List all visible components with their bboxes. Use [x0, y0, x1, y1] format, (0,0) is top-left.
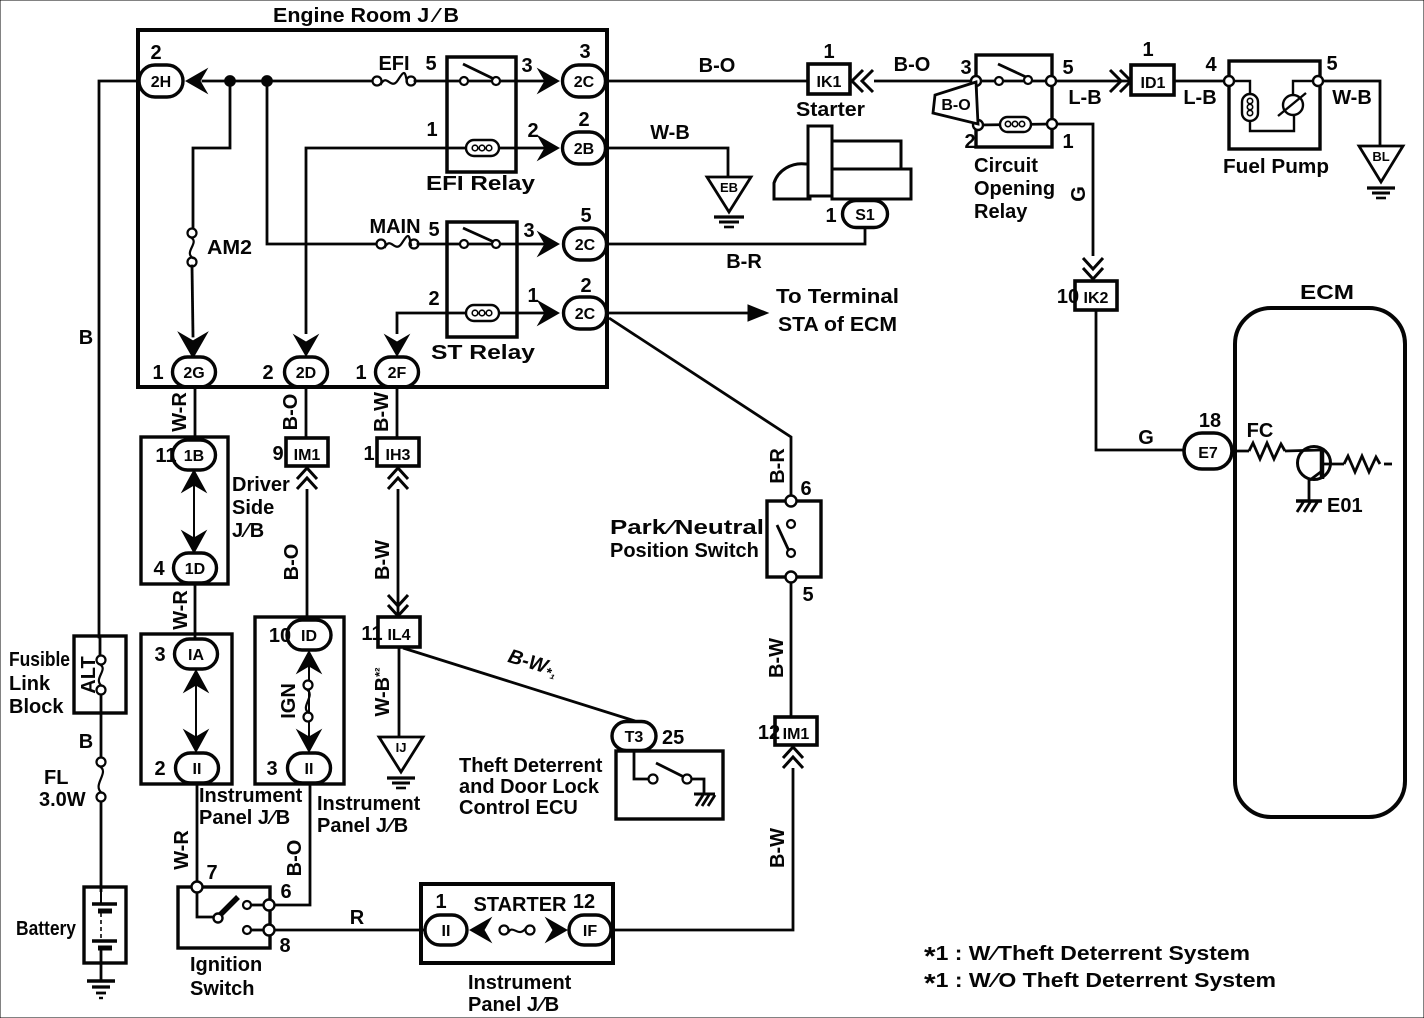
chevrons into IM1-9	[297, 468, 317, 489]
svg-text:2G: 2G	[183, 365, 204, 382]
svg-text:W-B: W-B	[650, 122, 690, 144]
svg-text:IA: IA	[188, 647, 204, 664]
svg-text:2: 2	[580, 275, 591, 297]
svg-text:Battery: Battery	[16, 918, 77, 940]
svg-text:1B: 1B	[184, 448, 204, 465]
ground E01	[1296, 495, 1363, 517]
lever	[220, 897, 238, 915]
wire park/neutral to IM1-12 (B-W)	[790, 583, 793, 717]
wire starter row to IM1-12 (B-W)	[613, 768, 793, 930]
coil of ST relay	[466, 305, 499, 321]
connector IA, pin 3	[175, 639, 218, 669]
svg-text:3: 3	[960, 57, 971, 79]
svg-text:18: 18	[1199, 410, 1221, 432]
svg-text:11: 11	[361, 623, 382, 645]
svg-text:Fusible: Fusible	[9, 649, 70, 671]
svg-text:W-B: W-B	[1332, 87, 1372, 109]
svg-text:EB: EB	[720, 180, 738, 195]
svg-text:ID1: ID1	[1141, 75, 1166, 92]
connector E7, pin 18	[1184, 410, 1232, 469]
wire EFI relay pin1 to 2D	[306, 148, 447, 334]
svg-text:Control ECU: Control ECU	[459, 797, 578, 819]
inner wiring	[1233, 81, 1250, 94]
arrow into 2B	[538, 136, 559, 160]
wire 2F to IH3 (B-W)	[396, 387, 399, 438]
svg-text:2: 2	[578, 109, 589, 131]
box Driver Side J/B	[141, 437, 290, 584]
arrow out of 2H	[186, 69, 207, 93]
svg-text:IJ: IJ	[396, 740, 407, 755]
svg-text:B-R: B-R	[767, 448, 789, 484]
wire 2B to EB ground (W-B)	[606, 148, 728, 177]
terminal 6	[786, 496, 797, 507]
chevrons into IK1	[852, 70, 873, 92]
pump motor circle	[1283, 95, 1303, 115]
connector 1B, pin 11	[173, 440, 216, 470]
svg-text:II: II	[442, 923, 451, 940]
terminal 5	[1313, 76, 1323, 86]
wire junction B down to MAIN fuse	[267, 81, 377, 244]
wire COR pin5 to ID1 (L-B)	[1056, 80, 1132, 83]
svg-text:8: 8	[279, 935, 290, 957]
wire 2H to EFI fuse (bus)	[203, 80, 377, 83]
arrow into II left	[470, 918, 491, 942]
wire IL4 to T3 diagonal (B-W*1)	[403, 648, 635, 721]
wire ALT to FL (B)	[100, 713, 103, 758]
relay U-COR: Circuit Opening Relay	[960, 55, 1073, 223]
box Engine Room J/B	[138, 30, 607, 387]
svg-text:ALT: ALT	[78, 656, 100, 693]
svg-text:5: 5	[428, 219, 439, 241]
svg-text:Instrument: Instrument	[199, 785, 303, 807]
transistor Q1 (fuel pump driver)	[1298, 447, 1393, 502]
connector IK1, pin 1	[796, 41, 865, 121]
svg-text:3: 3	[521, 55, 532, 77]
svg-text:2: 2	[154, 758, 165, 780]
connector 2D, pin 2	[262, 357, 327, 387]
svg-text:6: 6	[800, 478, 811, 500]
svg-text:EFI: EFI	[378, 53, 409, 75]
connector 2G, pin 1	[152, 357, 215, 387]
wire IK2 to E7 (G)	[1096, 310, 1184, 450]
connector IF, pin 12	[569, 915, 611, 945]
connector II, pin 3	[288, 753, 331, 783]
svg-text:IM1: IM1	[783, 726, 810, 743]
svg-text:3.0W: 3.0W	[39, 789, 86, 811]
connector 2F, pin 1	[355, 357, 418, 387]
svg-text:Theft Deterrent: Theft Deterrent	[459, 755, 603, 777]
svg-text:1: 1	[363, 443, 374, 465]
wire AM2 to 2G	[192, 266, 193, 336]
svg-text:ST Relay: ST Relay	[431, 342, 536, 364]
svg-text:3: 3	[154, 644, 165, 666]
wire ignition 8 to starter II (R)	[275, 929, 425, 932]
svg-text:Panel J ⁄ B: Panel J ⁄ B	[317, 815, 408, 837]
contact row	[976, 80, 1051, 83]
ground battery	[87, 981, 115, 998]
component Park/Neutral Position Switch	[610, 478, 821, 606]
svg-text:J ⁄ B: J ⁄ B	[232, 520, 264, 542]
svg-text:IM1: IM1	[294, 447, 321, 464]
box Instrument Panel J/B middle	[255, 617, 421, 837]
svg-text:B-O: B-O	[281, 544, 303, 581]
svg-text:Block: Block	[9, 696, 64, 718]
arrow up into ID	[297, 651, 321, 673]
svg-text:and Door Lock: and Door Lock	[459, 776, 600, 798]
fuse MAIN	[369, 216, 420, 249]
connector 2H	[139, 42, 183, 97]
terminal 2	[973, 120, 983, 130]
svg-text:4: 4	[1205, 54, 1217, 76]
fuel pump box	[1229, 61, 1320, 149]
connector S1, pin 1	[825, 201, 887, 228]
terminal 3	[971, 76, 981, 86]
wire FL to battery	[100, 801, 103, 892]
connector II, pin 1	[425, 915, 467, 945]
resistor FC	[1232, 443, 1321, 459]
svg-text:Fuel Pump: Fuel Pump	[1223, 156, 1329, 178]
connector T3, pin 25	[612, 722, 684, 751]
svg-text:10: 10	[1057, 286, 1079, 308]
svg-text:FL: FL	[44, 767, 68, 789]
arrow into 2C mid	[538, 232, 559, 256]
svg-text:5: 5	[425, 53, 436, 75]
svg-text:To Terminal: To Terminal	[776, 286, 899, 308]
svg-text:B-O: B-O	[894, 54, 931, 76]
arrow down into II	[297, 730, 321, 752]
svg-text:II: II	[305, 761, 314, 778]
arrow into 2C top	[538, 69, 559, 93]
svg-text:Engine Room J ⁄ B: Engine Room J ⁄ B	[273, 5, 459, 27]
arrow into 2C low	[538, 301, 559, 325]
svg-text:E7: E7	[1198, 445, 1218, 462]
svg-text:B-O: B-O	[280, 394, 302, 431]
fuse STARTER	[500, 926, 509, 935]
wire 2C low to park/neutral switch (B-R diagonal)	[609, 318, 791, 496]
wire COR pin3 to IK1 (B-O)	[874, 80, 976, 83]
svg-text:B-W: B-W	[371, 392, 393, 432]
svg-text:IK1: IK1	[817, 74, 842, 91]
arrow up into 1B	[182, 470, 206, 492]
connector IM1, pin 12	[758, 717, 817, 745]
splice flag B-O at COR pin3	[933, 82, 978, 124]
terminal 1	[1047, 119, 1057, 129]
svg-text:AM2: AM2	[207, 237, 252, 259]
svg-text:ID: ID	[301, 628, 317, 645]
chevrons into IH3	[388, 468, 408, 489]
svg-text:4: 4	[153, 558, 165, 580]
svg-text:L-B: L-B	[1183, 87, 1216, 109]
terminal 6	[264, 900, 275, 911]
wire 2D to IM1-9 (B-O)	[305, 387, 308, 438]
chevrons into ID1	[1110, 70, 1131, 92]
arrow down into 1D	[182, 531, 206, 553]
svg-text:1: 1	[435, 891, 446, 913]
connector 2C mid, pin 5	[564, 205, 607, 260]
svg-text:2: 2	[150, 42, 161, 64]
svg-text:1: 1	[823, 41, 834, 63]
connector 2B, pin 2	[563, 109, 606, 164]
node junction dot A	[226, 77, 235, 86]
wire B from battery riser to 2H	[99, 81, 139, 637]
svg-text:Starter: Starter	[796, 99, 865, 121]
connector ID, pin 10	[287, 620, 331, 650]
svg-text:W-R: W-R	[169, 392, 191, 432]
terminal 5	[1046, 76, 1056, 86]
connector II, pin 2	[176, 753, 219, 783]
wire ST relay pin2 to 2F	[397, 313, 447, 334]
coil wire row	[447, 312, 545, 315]
svg-text:B-W: B-W	[767, 828, 789, 868]
connector 2C low, pin 2	[564, 275, 607, 329]
svg-text:II: II	[193, 761, 202, 778]
svg-text:IL4: IL4	[387, 627, 410, 644]
svg-text:10: 10	[269, 625, 291, 647]
svg-text:1: 1	[825, 205, 836, 227]
arrow up into IA	[184, 670, 208, 692]
svg-text:W-R: W-R	[171, 830, 193, 870]
wire fuel pump pin5 to BL ground (W-B)	[1323, 81, 1380, 146]
svg-text:9: 9	[272, 443, 283, 465]
arrow down into II	[184, 730, 208, 752]
svg-text:W-R: W-R	[170, 590, 192, 630]
svg-text:11: 11	[155, 445, 176, 467]
wire ID1 to fuel pump pin4 (L-B)	[1174, 80, 1223, 83]
svg-text:2: 2	[964, 131, 975, 153]
svg-text:Opening: Opening	[974, 178, 1055, 200]
starter motor drawing	[774, 126, 911, 199]
wire contact row inside relay	[464, 80, 545, 83]
arrow into IF right	[546, 918, 567, 942]
svg-text:Panel J ⁄ B: Panel J ⁄ B	[199, 807, 290, 829]
box ECM	[1235, 308, 1405, 817]
arrowhead STA	[748, 305, 768, 321]
svg-text:B: B	[79, 731, 93, 753]
connector IK2, pin 10	[1057, 281, 1117, 310]
svg-text:Circuit: Circuit	[974, 155, 1038, 177]
wire 2C top to IK1 (B-O)	[606, 80, 808, 83]
connector 1D, pin 4	[174, 553, 217, 583]
switch lever	[463, 64, 494, 79]
terminal 4	[1224, 76, 1234, 86]
connector 2C top, pin 3	[563, 41, 606, 97]
svg-text:Driver: Driver	[232, 474, 290, 496]
svg-text:12: 12	[758, 722, 780, 744]
svg-text:2C: 2C	[575, 237, 596, 254]
svg-text:EFI Relay: EFI Relay	[426, 173, 536, 195]
svg-text:1: 1	[1142, 39, 1153, 61]
svg-text:IK2: IK2	[1084, 290, 1109, 307]
wire to terminal STA of ECM	[607, 312, 752, 315]
svg-text:1: 1	[527, 285, 538, 307]
svg-text:E01: E01	[1327, 495, 1363, 517]
svg-text:2: 2	[262, 362, 273, 384]
svg-text:5: 5	[1062, 57, 1073, 79]
chevrons into IM1-12	[783, 747, 803, 768]
svg-text:Relay: Relay	[974, 201, 1028, 223]
svg-text:B-O: B-O	[699, 55, 736, 77]
wire 1D to IA (W-R)	[194, 584, 197, 639]
svg-text:R: R	[350, 907, 365, 929]
svg-text:B-W: B-W	[372, 540, 394, 580]
svg-text:2D: 2D	[296, 365, 316, 382]
svg-text:Switch: Switch	[190, 978, 254, 1000]
svg-text:3: 3	[266, 758, 277, 780]
svg-text:2: 2	[527, 120, 538, 142]
inner wire from 7	[197, 893, 215, 917]
terminal 7	[192, 882, 203, 893]
svg-text:1: 1	[1062, 131, 1073, 153]
relay U-ST: ST Relay	[428, 220, 545, 364]
connector IL4, pin 11	[361, 617, 420, 647]
relay box ST	[447, 222, 517, 337]
ground BL	[1359, 146, 1403, 198]
connector IM1, pin 9	[272, 438, 328, 466]
wire 1B to 1D	[193, 470, 195, 553]
svg-text:ECM: ECM	[1300, 282, 1354, 304]
svg-text:L-B: L-B	[1068, 87, 1101, 109]
component Fuel Pump	[1205, 53, 1337, 178]
fuse EFI	[373, 53, 416, 86]
svg-text:G: G	[1138, 427, 1154, 449]
arrow into 2G	[181, 335, 205, 356]
svg-text:1: 1	[152, 362, 163, 384]
svg-text:STARTER: STARTER	[474, 894, 568, 916]
svg-text:IGN: IGN	[278, 683, 300, 719]
svg-text:3: 3	[579, 41, 590, 63]
arrow into 2F	[385, 335, 409, 356]
component Fusible Link Block ALT	[9, 636, 126, 718]
svg-text:IF: IF	[583, 923, 597, 940]
svg-text:G: G	[1068, 186, 1090, 202]
svg-text:Panel J ⁄ B: Panel J ⁄ B	[468, 994, 559, 1016]
svg-text:B-R: B-R	[726, 251, 762, 273]
relay box EFI	[447, 57, 516, 172]
contacts row 8	[243, 926, 251, 934]
ground EB	[707, 177, 751, 227]
svg-text:2F: 2F	[388, 365, 407, 382]
node junction dot B	[263, 77, 272, 86]
connector ID1, pin 1	[1131, 39, 1174, 95]
arrow into 2D	[294, 335, 318, 356]
inner contact	[787, 520, 795, 528]
svg-text:Park ⁄ Neutral: Park ⁄ Neutral	[610, 517, 764, 539]
svg-text:Link: Link	[9, 673, 51, 695]
svg-text:1: 1	[355, 362, 366, 384]
svg-text:B-W: B-W	[766, 638, 788, 678]
chevrons into IK2	[1083, 258, 1103, 279]
svg-text:2H: 2H	[151, 74, 171, 91]
wire IM1-9 to ID (B-O)	[306, 489, 309, 622]
svg-text:Side: Side	[232, 497, 274, 519]
component Battery	[16, 887, 126, 980]
svg-text:IH3: IH3	[386, 447, 411, 464]
contact circles	[460, 77, 468, 85]
chevrons into IL4	[388, 595, 408, 616]
coil row	[978, 124, 1052, 125]
svg-text:MAIN: MAIN	[369, 216, 420, 238]
wire IL4 to IJ ground (W-B*2)	[398, 648, 401, 737]
terminal 8	[264, 925, 275, 936]
svg-text:B-O: B-O	[941, 97, 970, 114]
svg-text:STA of ECM: STA of ECM	[778, 314, 897, 336]
svg-text:B-O: B-O	[284, 840, 306, 877]
svg-text:BL: BL	[1372, 149, 1389, 164]
svg-text:25: 25	[662, 727, 684, 749]
svg-text:2C: 2C	[574, 74, 595, 91]
svg-text:T3: T3	[625, 729, 644, 746]
svg-text:5: 5	[1326, 53, 1337, 75]
wire ID to II	[308, 651, 310, 752]
svg-text:3: 3	[523, 220, 534, 242]
svg-text:S1: S1	[855, 207, 875, 224]
wire IA to II	[195, 669, 197, 752]
relay U-EFI: EFI Relay	[426, 55, 545, 195]
svg-text:5: 5	[802, 584, 813, 606]
svg-text:Instrument: Instrument	[468, 972, 572, 994]
svg-text:5: 5	[580, 205, 591, 227]
wire II to ignition switch 7 (W-R)	[196, 784, 199, 882]
svg-text:12: 12	[573, 891, 595, 913]
ground IJ	[379, 737, 423, 788]
svg-text:1: 1	[426, 119, 437, 141]
connector IH3, pin 1	[363, 438, 419, 466]
wire S1 to 2C mid (B-R)	[607, 228, 865, 244]
svg-text:Ignition: Ignition	[190, 954, 262, 976]
svg-text:2: 2	[428, 288, 439, 310]
wire II to ignition switch 6 (B-O)	[274, 784, 310, 905]
contact row	[464, 243, 545, 246]
svg-text:2B: 2B	[574, 141, 594, 158]
wire IH3 to IL4 (B-W)	[397, 489, 400, 616]
wire MAIN fuse to ST relay pin5	[418, 243, 464, 246]
coil of EFI relay	[466, 140, 499, 156]
wire 2G to 1B (W-R)	[194, 387, 197, 441]
relay box COR	[976, 55, 1052, 147]
svg-text:Instrument: Instrument	[317, 793, 421, 815]
wire COR pin1 to IK2 (G)	[1057, 124, 1093, 256]
wire EFI fuse to EFI relay pin5	[415, 80, 464, 83]
switch IGN	[304, 681, 313, 690]
svg-text:2C: 2C	[575, 306, 596, 323]
svg-text:7: 7	[206, 862, 217, 884]
fuse AM2	[188, 229, 253, 267]
terminal 5	[786, 572, 797, 583]
component Theft Deterrent and Door Lock Control ECU	[616, 751, 723, 819]
svg-text:B: B	[79, 327, 93, 349]
svg-text:6: 6	[280, 881, 291, 903]
box Instrument Panel J/B left	[141, 634, 303, 829]
svg-text:1D: 1D	[185, 561, 205, 578]
svg-text:FC: FC	[1247, 420, 1274, 442]
contacts row 6	[243, 901, 251, 909]
fusible link FL 3.0W	[39, 758, 106, 812]
coil wire row	[447, 147, 545, 150]
svg-text:Position Switch: Position Switch	[610, 540, 759, 562]
wire junction A down to AM2	[193, 81, 230, 229]
